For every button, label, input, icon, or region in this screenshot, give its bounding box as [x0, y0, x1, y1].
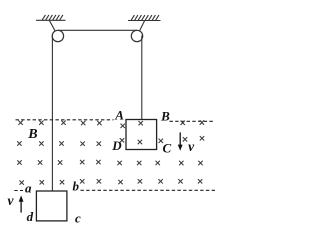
pulley right	[131, 30, 142, 41]
svg-text:B: B	[27, 127, 37, 142]
ceiling support left	[36, 15, 66, 20]
svg-text:v: v	[188, 139, 195, 154]
string horizontal between pulleys	[58, 29, 137, 31]
field boundary bottom dashed line	[14, 189, 215, 191]
svg-text:A: A	[114, 108, 124, 123]
svg-text:D: D	[111, 138, 122, 153]
pulley left	[52, 30, 63, 41]
magnetic field x marks row 1	[18, 120, 204, 128]
svg-text:d: d	[27, 209, 34, 224]
magnetic field x marks row 4	[20, 179, 203, 185]
svg-text:b: b	[72, 179, 79, 194]
velocity arrow right (v down)	[178, 132, 183, 150]
svg-text:c: c	[75, 211, 81, 226]
loop abcd	[36, 191, 67, 221]
string right vertical to loop ABCD	[141, 36, 143, 120]
svg-text:v: v	[8, 193, 15, 208]
loop ABCD	[126, 120, 157, 150]
svg-text:a: a	[25, 181, 32, 196]
string left vertical to loop abcd	[51, 36, 53, 192]
magnetic field x marks row 2	[17, 136, 204, 146]
strut left	[49, 20, 58, 36]
field boundary top dashed line	[16, 120, 215, 122]
svg-text:C: C	[162, 140, 171, 155]
strut right	[137, 21, 145, 37]
ceiling support right	[128, 15, 161, 20]
svg-text:B: B	[160, 108, 170, 123]
magnetic field x marks row 3	[17, 160, 202, 165]
velocity arrow left (v up)	[19, 195, 24, 212]
